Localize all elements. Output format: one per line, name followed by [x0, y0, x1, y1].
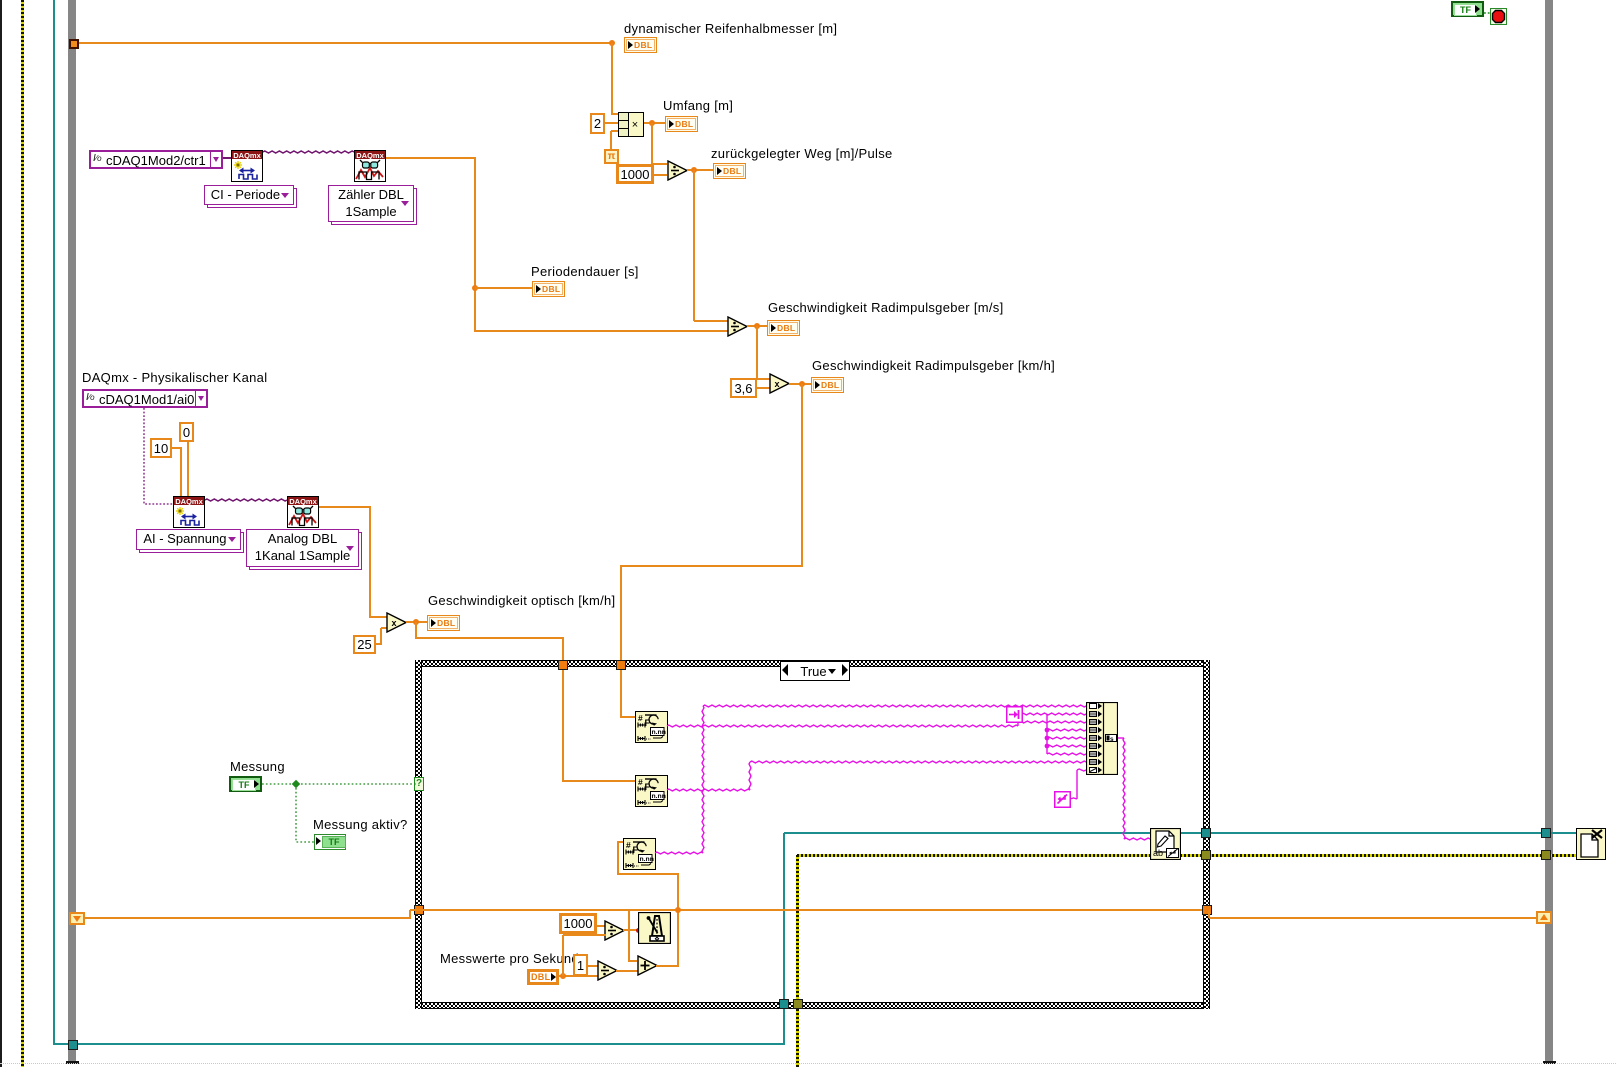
wire DBL out	[559, 975, 598, 977]
wire analog to mul25	[370, 616, 387, 618]
wire to Periodendauer	[475, 287, 532, 289]
divide 1/rate	[597, 960, 619, 981]
junction Periodendauer	[472, 285, 478, 291]
svg-text:s: s	[1110, 736, 1114, 743]
main wire jog up	[409, 910, 411, 918]
case selector label True	[780, 661, 850, 681]
label Periodendauer	[531, 265, 639, 279]
svg-text:×: ×	[632, 119, 638, 131]
wire divide2 out	[747, 325, 767, 327]
tunnel dyn radius on left border	[69, 39, 79, 49]
string wires	[0, 690, 1616, 910]
error wire to write node	[797, 854, 1150, 857]
io constant cDAQ1Mod2/ctr1	[89, 150, 223, 169]
wire m/s down	[756, 326, 758, 379]
task wire analog	[0, 420, 500, 580]
coercion dot wait	[636, 928, 641, 933]
junction main wire	[675, 907, 681, 913]
DAQmx Read counter	[354, 150, 386, 182]
case structure top border	[415, 660, 1210, 667]
constant 10	[150, 438, 172, 458]
selector CI - Periode	[204, 185, 297, 208]
wire plus out	[656, 965, 679, 967]
svg-text:DAQmx: DAQmx	[233, 151, 261, 160]
main wire out of case	[1209, 917, 1537, 919]
wire dyn radius from tunnel	[78, 42, 613, 44]
label Messung	[230, 760, 285, 774]
wire pi up	[610, 131, 612, 149]
wire 2 to multiply	[604, 122, 618, 124]
while loop bottom edge cap right	[1543, 1061, 1556, 1064]
indicator Umfang	[665, 116, 698, 132]
tunnel file refnum case right	[1201, 828, 1211, 838]
svg-text:DAQmx: DAQmx	[289, 497, 317, 506]
label Geschwindigkeit Radimpulsgeber km/h	[812, 359, 1055, 373]
wait until next ms multiple	[638, 912, 671, 944]
tunnel file refnum loop border	[1541, 828, 1551, 838]
label Messung aktiv?	[313, 818, 408, 832]
control Messwerte DBL	[527, 969, 559, 985]
wire 1000 to div3	[596, 925, 606, 927]
label Geschwindigkeit Radimpulsgeber m/s	[768, 301, 1004, 315]
constant 1000	[616, 164, 654, 184]
file wire bottom horizontal	[54, 1043, 785, 1045]
wire div4 out	[616, 970, 639, 972]
file wire to write node	[784, 832, 1150, 834]
tunnel error loop border	[1541, 850, 1551, 860]
divide speed m/s	[727, 316, 749, 337]
indicator dynamischer Reifenhalbmesser	[624, 37, 657, 53]
while loop right border	[1545, 0, 1553, 1061]
svg-text:#: #	[638, 777, 643, 787]
wire into F1	[621, 716, 635, 718]
wire analog down	[369, 507, 371, 618]
DAQmx Create Channel CI	[231, 150, 263, 182]
label Umfang	[663, 99, 733, 113]
constant 3,6	[730, 378, 757, 398]
file wire rise below case	[783, 1009, 785, 1045]
wire F3 feed horizontal	[618, 873, 679, 875]
wire 10 out	[171, 447, 182, 449]
wire kmh down	[801, 384, 803, 567]
indicator zurueckgelegter Weg	[713, 163, 746, 179]
wire 1 to div4	[587, 965, 599, 967]
divide Umfang/1000	[667, 160, 689, 181]
wire 10 down	[180, 448, 182, 496]
wire 25 out	[375, 643, 382, 645]
wire optisch tunnel to F2	[562, 670, 564, 782]
compound arithmetic multiply	[618, 112, 644, 137]
wire mul36 out	[789, 383, 811, 385]
selector Analog DBL 1Kanal 1Sample	[246, 529, 362, 570]
error wire rise inside case	[796, 855, 799, 1001]
junction dyn radius	[609, 40, 615, 46]
close file node	[1576, 828, 1606, 860]
svg-text:DAQmx: DAQmx	[175, 497, 203, 506]
DAQmx Read analog	[287, 496, 319, 528]
wire F3 riser	[617, 842, 619, 875]
wire 25 up	[380, 628, 382, 644]
wire kmh left	[620, 565, 803, 567]
label Messwerte pro Sekunde	[440, 952, 586, 966]
svg-text:ab: ab	[1153, 848, 1163, 858]
add periods	[637, 955, 659, 976]
tunnel error case bottom	[793, 999, 803, 1009]
constant pi	[604, 149, 619, 164]
outer structure left edge	[0, 0, 2, 1067]
wire 1000 to divide	[654, 174, 667, 176]
control Messung TF	[229, 776, 262, 792]
multiply 25	[386, 612, 408, 633]
indicator Geschwindigkeit m/s	[767, 320, 800, 336]
wire 0 down	[187, 442, 189, 496]
tunnel kmh on case top	[616, 660, 626, 670]
indicator Periodendauer	[532, 281, 565, 297]
constant 25	[353, 635, 376, 654]
label Geschwindigkeit optisch	[428, 594, 615, 608]
boolean wire stop	[1480, 0, 1500, 30]
wire kmh into case	[620, 566, 622, 662]
Number To Fractional String 1	[635, 711, 668, 743]
end of line constant	[1054, 791, 1071, 808]
error wire rise below case	[796, 1009, 799, 1067]
task wire counter	[0, 0, 1616, 300]
indicator Geschwindigkeit optisch	[427, 615, 460, 631]
junction Umfang	[649, 120, 655, 126]
wire mul25 out	[406, 621, 427, 623]
wire dyn radius down	[611, 43, 613, 115]
svg-text:n.nn: n.nn	[652, 793, 666, 800]
diagram bottom dotted line	[0, 1063, 1616, 1064]
svg-text:x: x	[391, 618, 396, 628]
indicator Messung aktiv TF	[314, 834, 346, 850]
wire analog read out	[319, 506, 371, 508]
label zurueckgelegter Weg	[711, 147, 893, 161]
tunnel optisch on case top	[558, 660, 568, 670]
wire Weg to divide2	[694, 320, 728, 322]
wire F3 feed from main	[677, 874, 679, 966]
wire Messwerte to div3	[563, 934, 606, 936]
svg-text:x: x	[774, 379, 779, 389]
svg-text:n.nn: n.nn	[640, 856, 654, 863]
main wire jog right	[1208, 910, 1210, 918]
wire Umfang down	[651, 123, 653, 164]
while loop bottom edge cap left	[66, 1061, 79, 1064]
write to text file	[1150, 828, 1181, 860]
loop condition terminal stop	[1490, 8, 1507, 25]
wire Messwerte up	[562, 935, 564, 976]
case structure bottom border	[415, 1002, 1210, 1009]
divide 1000/rate	[604, 920, 626, 941]
wire optisch into case	[562, 638, 564, 662]
case structure right border	[1203, 660, 1210, 1009]
file refnum wire vertical left	[53, 0, 55, 1045]
wire into multiply top	[612, 113, 618, 115]
shift register left	[69, 912, 85, 925]
junction Messwerte	[560, 973, 566, 979]
wire into F3	[617, 841, 623, 843]
svg-text:n.nn: n.nn	[652, 729, 666, 736]
junction m/s	[754, 323, 760, 329]
wire 3,6 to mul	[756, 387, 770, 389]
label DAQmx - Physikalischer Kanal	[82, 371, 267, 385]
main wire into case	[410, 909, 1202, 911]
wire period to divide2	[475, 330, 728, 332]
concatenate strings	[1086, 702, 1118, 775]
error wire write node to close	[1180, 854, 1576, 857]
svg-text:#: #	[626, 840, 631, 850]
selector AI - Spannung	[136, 529, 244, 553]
wire Weg down	[693, 170, 695, 321]
Number To Fractional String 2	[635, 775, 668, 807]
wire Umfang to divide	[652, 163, 667, 165]
wire into plus top	[629, 960, 637, 962]
wire div3 to wait	[623, 929, 640, 931]
file wire write node to close	[1180, 832, 1576, 834]
boolean wire Messung	[0, 750, 500, 870]
wire counter read down	[474, 158, 476, 332]
io constant cDAQ1Mod1/ai0	[82, 389, 208, 408]
indicator Geschwindigkeit km/h	[811, 377, 844, 393]
main wire from shift register	[85, 917, 411, 919]
constant 1000 wait	[559, 913, 597, 934]
junction km/h	[799, 381, 805, 387]
control stop TF	[1451, 1, 1484, 17]
wire counter read out	[386, 157, 476, 159]
wire m/s to mul36	[757, 378, 770, 380]
tunnel file refnum case bottom	[779, 999, 789, 1009]
Number To Fractional String 3	[623, 838, 656, 870]
wire multiply out	[644, 122, 665, 124]
tunnel file refnum left loop border	[68, 1040, 78, 1050]
shift register right	[1536, 911, 1552, 924]
tunnel main wire case left	[414, 905, 424, 915]
case structure left border	[415, 660, 422, 1009]
channel wire analog	[0, 380, 400, 580]
tunnel error case right	[1201, 850, 1211, 860]
selector Zaehler DBL 1Sample	[328, 185, 417, 225]
case selector tunnel question mark	[414, 777, 424, 791]
label dynamischer Reifenhalbmesser	[624, 22, 837, 36]
junction optisch	[413, 619, 419, 625]
constant 0	[179, 422, 194, 442]
error wire vertical left edge	[21, 0, 24, 1067]
wire kmh tunnel to F1	[620, 670, 622, 718]
wire pi to multiply	[611, 130, 618, 132]
wire 25 to mul	[381, 627, 387, 629]
DAQmx Create Channel AI	[173, 496, 205, 528]
svg-text:DAQmx: DAQmx	[356, 151, 384, 160]
wire into F2	[563, 780, 635, 782]
svg-text:#: #	[638, 713, 643, 723]
wire optisch right	[416, 637, 564, 639]
wire divide out	[687, 169, 713, 171]
wire main to plus	[628, 910, 630, 962]
multiply 3,6	[769, 373, 791, 394]
tab constant	[1006, 706, 1023, 723]
junction Weg	[691, 167, 697, 173]
tunnel main wire case right	[1202, 905, 1212, 915]
file wire rise inside case	[783, 833, 785, 1001]
wire optisch down	[415, 622, 417, 639]
while loop left border	[68, 0, 76, 1061]
constant 2	[590, 113, 605, 134]
constant 1	[573, 954, 588, 976]
